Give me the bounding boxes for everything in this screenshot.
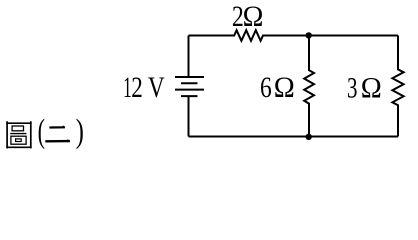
svg-text:6: 6 [260, 70, 272, 103]
svg-text:Ω: Ω [243, 0, 264, 33]
svg-text:(: ( [38, 114, 45, 151]
svg-text:1: 1 [123, 71, 132, 104]
svg-text:V: V [148, 70, 165, 104]
svg-text:3: 3 [347, 71, 357, 105]
svg-text:Ω: Ω [361, 72, 382, 105]
svg-text:2: 2 [131, 70, 143, 104]
svg-text:): ) [76, 114, 84, 150]
svg-text:Ω: Ω [274, 71, 295, 104]
